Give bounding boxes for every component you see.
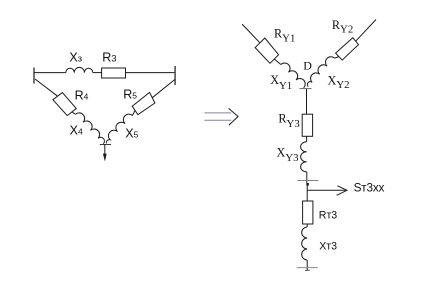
node C junction tick [100, 144, 111, 146]
resistor R3 [102, 68, 126, 78]
inductor XY3 [301, 142, 307, 172]
svg-text:X4: X4 [70, 123, 83, 137]
tap junction dot [306, 183, 308, 186]
wire B to R5 (right diagonal) [152, 80, 175, 98]
svg-text:Xт3: Xт3 [319, 240, 337, 252]
arrow right (St3xx) shaft [308, 189, 346, 191]
tap junction tick [297, 180, 318, 182]
bottom terminal foot [305, 269, 310, 271]
svg-text:D: D [303, 58, 312, 72]
wire Xt3 to bottom terminal [306, 260, 308, 270]
svg-text:Sт3хх: Sт3хх [354, 180, 385, 194]
resistor RY3 [302, 114, 312, 136]
svg-text:R4: R4 [75, 89, 89, 103]
wire top-left to RY1 [242, 24, 260, 43]
wire D to RY3 [306, 89, 308, 114]
inductor Xt3 [302, 227, 308, 260]
wire Rt3 to Xt3 [306, 224, 308, 227]
arrow right chevron [337, 186, 347, 196]
resistor Rt3 [303, 201, 313, 224]
svg-text:XY2: XY2 [328, 73, 350, 91]
svg-text:RY3: RY3 [278, 111, 299, 130]
node D junction tick [300, 88, 312, 90]
equivalence arrow chevron [229, 108, 239, 125]
wire RY3 to XY3 [306, 136, 308, 142]
wire junction down [104, 144, 106, 157]
equivalence arrow line 1 [204, 112, 231, 114]
wire top-right to RY2 [356, 20, 376, 42]
svg-text:R5: R5 [123, 87, 137, 101]
terminal bar left (node A) [33, 68, 35, 84]
svg-text:R3: R3 [102, 51, 116, 65]
inductor XY2 [307, 57, 334, 87]
svg-text:X5: X5 [125, 127, 138, 141]
inductor XY1 [281, 63, 305, 88]
svg-text:RY1: RY1 [274, 26, 295, 44]
resistor R4 [53, 93, 76, 116]
resistor R5 [132, 92, 155, 114]
inductor X5 [106, 114, 132, 143]
resistor RY1 [255, 38, 279, 63]
svg-text:RY2: RY2 [332, 18, 353, 35]
wire RY1 to XY1 [274, 59, 281, 65]
wire R4 to X4 [72, 112, 76, 114]
svg-text:XY1: XY1 [270, 73, 292, 92]
wire R5 to X5 [133, 110, 136, 115]
wire A to X3 [35, 72, 66, 74]
svg-text:Xз: Xз [69, 51, 82, 65]
inductor X3 [66, 67, 93, 72]
svg-text:Rт3: Rт3 [319, 210, 338, 222]
wire X3 to R3 [93, 72, 102, 74]
wire RY2 to XY2 [335, 57, 339, 59]
wire A to R4 (left diagonal) [35, 79, 58, 96]
svg-text:XY3: XY3 [277, 146, 299, 165]
wire XY3 to tap [306, 172, 308, 183]
bottom terminal tick [297, 267, 318, 269]
wire tap to Rt3 [306, 186, 308, 201]
inductor X4 [76, 113, 105, 144]
arrow down [103, 154, 107, 162]
wire R3 to right terminal [126, 72, 175, 74]
terminal bar right (node B) [174, 66, 176, 85]
resistor RY2 [336, 38, 359, 60]
equivalence arrow line 2 [204, 119, 231, 121]
